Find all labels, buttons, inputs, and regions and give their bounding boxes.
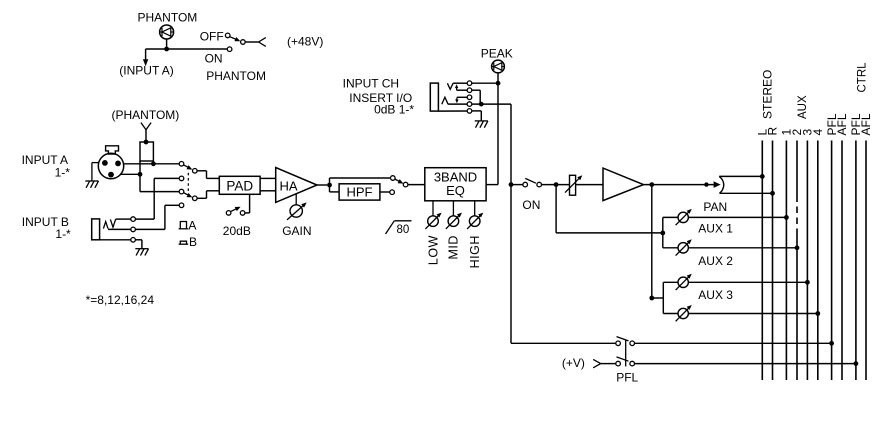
svg-text:PAN: PAN xyxy=(703,200,727,214)
svg-text:PHANTOM: PHANTOM xyxy=(206,69,266,83)
svg-text:(PHANTOM): (PHANTOM) xyxy=(112,108,180,122)
svg-text:CTRL: CTRL xyxy=(856,62,868,93)
svg-text:AUX 2: AUX 2 xyxy=(698,254,733,268)
svg-text:A: A xyxy=(188,219,196,233)
svg-text:HA: HA xyxy=(279,179,297,194)
svg-text:AUX 3: AUX 3 xyxy=(698,288,733,302)
svg-text:AUX: AUX xyxy=(797,95,809,119)
svg-text:B: B xyxy=(189,235,197,249)
svg-text:AFL: AFL xyxy=(835,113,849,135)
svg-text:AUX 1: AUX 1 xyxy=(698,222,733,236)
svg-text:STEREO: STEREO xyxy=(761,70,775,119)
svg-text:ON: ON xyxy=(205,51,223,65)
svg-text:GAIN: GAIN xyxy=(282,224,311,238)
svg-text:1-*: 1-* xyxy=(55,165,71,179)
svg-text:AFL: AFL xyxy=(859,113,873,135)
svg-text:1-*: 1-* xyxy=(55,227,71,241)
svg-text:4: 4 xyxy=(811,129,825,136)
svg-text:0dB 1-*: 0dB 1-* xyxy=(374,103,414,117)
svg-text:PAD: PAD xyxy=(226,179,253,194)
svg-text:(+V): (+V) xyxy=(562,356,585,370)
svg-text:OFF: OFF xyxy=(200,30,224,44)
svg-text:EQ: EQ xyxy=(446,183,465,198)
svg-text:HPF: HPF xyxy=(347,184,373,199)
svg-text:R: R xyxy=(766,127,780,136)
svg-text:MID: MID xyxy=(447,235,461,259)
svg-text:(INPUT A): (INPUT A) xyxy=(119,64,173,78)
svg-text:80: 80 xyxy=(397,224,410,236)
svg-text:PFL: PFL xyxy=(616,370,638,384)
svg-text:HIGH: HIGH xyxy=(468,235,482,268)
svg-text:PHANTOM: PHANTOM xyxy=(138,10,198,24)
svg-text:LOW: LOW xyxy=(426,235,440,265)
svg-text:ON: ON xyxy=(522,198,540,212)
svg-text:*=8,12,16,24: *=8,12,16,24 xyxy=(86,293,155,307)
svg-text:PEAK: PEAK xyxy=(481,46,513,60)
svg-text:(+48V): (+48V) xyxy=(287,35,323,49)
svg-text:INPUT CH: INPUT CH xyxy=(343,76,399,90)
svg-text:20dB: 20dB xyxy=(223,224,251,238)
